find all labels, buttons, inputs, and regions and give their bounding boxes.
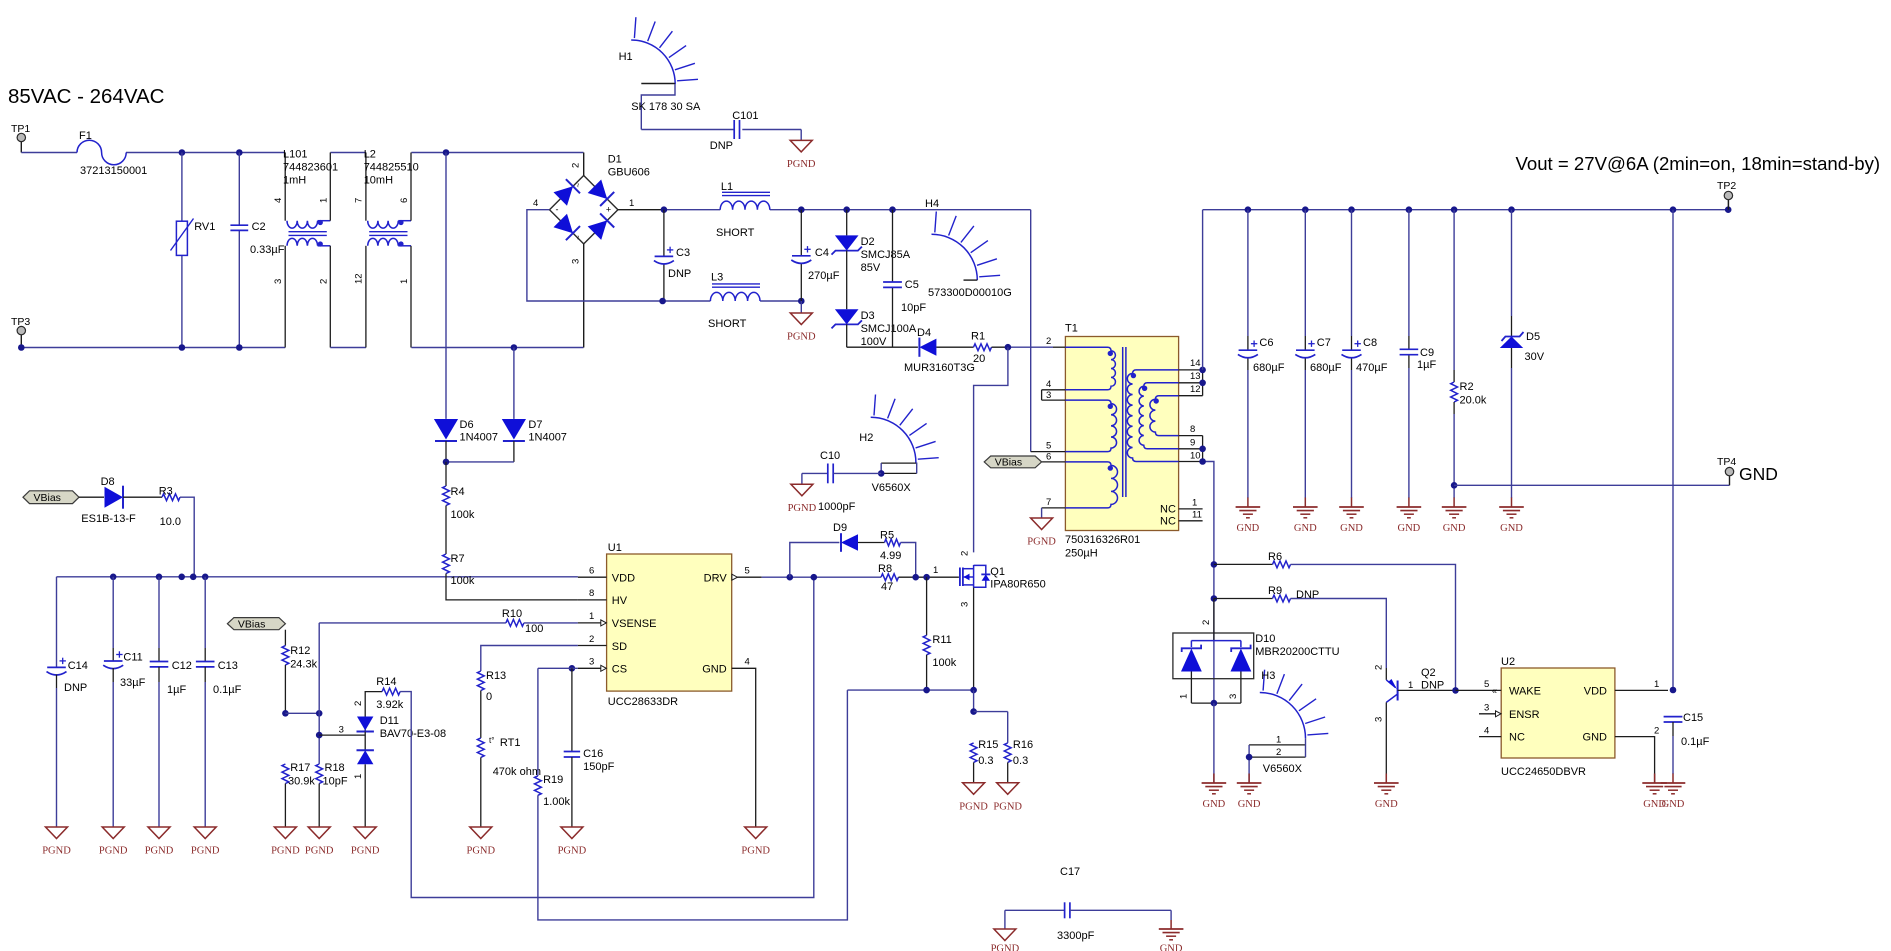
svg-text:8: 8 — [1190, 424, 1195, 435]
svg-text:CS: CS — [612, 664, 627, 676]
svg-text:3300pF: 3300pF — [1057, 930, 1095, 942]
svg-text:+: + — [606, 205, 611, 215]
thermistor RT1 — [477, 736, 541, 827]
test point TP4 — [1454, 456, 1778, 485]
svg-text:2: 2 — [1046, 336, 1051, 347]
svg-text:DRV: DRV — [704, 573, 728, 585]
dual diode D11 — [319, 692, 446, 827]
svg-text:PGND: PGND — [558, 846, 587, 857]
svg-text:750316326R01: 750316326R01 — [1065, 534, 1140, 546]
svg-text:744823601: 744823601 — [283, 162, 338, 174]
svg-text:D5: D5 — [1526, 331, 1540, 343]
svg-text:R16: R16 — [1013, 739, 1033, 751]
svg-text:470k ohm: 470k ohm — [493, 766, 541, 778]
resistor R7 — [443, 553, 578, 600]
diode D4 — [847, 327, 975, 374]
ground GND (D10) — [1202, 774, 1227, 811]
svg-text:D4: D4 — [917, 327, 931, 339]
svg-text:1.00k: 1.00k — [543, 796, 570, 808]
wire output +rail — [1203, 206, 1732, 213]
svg-text:3: 3 — [571, 259, 582, 264]
svg-text:1: 1 — [318, 198, 329, 203]
svg-text:D1: D1 — [608, 154, 622, 166]
svg-text:5: 5 — [1046, 441, 1051, 452]
power ground PGND (C12) — [145, 827, 174, 857]
svg-text:GND: GND — [1203, 799, 1226, 810]
svg-text:D2: D2 — [861, 236, 875, 248]
svg-text:10.0: 10.0 — [160, 516, 181, 528]
svg-text:2: 2 — [1201, 620, 1212, 625]
resistor R11 — [923, 577, 957, 690]
transformer T1 — [1031, 323, 1206, 560]
svg-text:DNP: DNP — [1296, 589, 1319, 601]
svg-text:10pF: 10pF — [901, 302, 926, 314]
svg-text:20.0k: 20.0k — [1460, 395, 1487, 407]
svg-text:30V: 30V — [1525, 351, 1545, 363]
resistor R2 — [1451, 210, 1487, 498]
svg-text:H2: H2 — [859, 432, 873, 444]
svg-text:NC: NC — [1160, 504, 1176, 516]
svg-text:PGND: PGND — [993, 801, 1022, 812]
svg-text:DNP: DNP — [64, 682, 87, 694]
svg-text:PGND: PGND — [351, 846, 380, 857]
svg-text:~: ~ — [574, 235, 583, 240]
svg-text:1: 1 — [1192, 498, 1197, 509]
svg-text:PGND: PGND — [741, 846, 770, 857]
svg-text:1: 1 — [933, 565, 938, 576]
power ground PGND (C11) — [99, 827, 128, 857]
net label 85VAC - 264VAC — [8, 85, 165, 108]
capacitor C10 — [802, 450, 881, 513]
svg-text:R1: R1 — [971, 331, 985, 343]
svg-text:T1: T1 — [1065, 323, 1078, 335]
svg-text:DNP: DNP — [668, 268, 691, 280]
svg-text:7: 7 — [1046, 497, 1051, 508]
svg-text:PGND: PGND — [1027, 537, 1056, 548]
inductor L1 — [716, 181, 770, 239]
svg-text:GND: GND — [1340, 523, 1363, 534]
capacitor C6 — [1238, 210, 1285, 498]
svg-text:BAV70-E3-08: BAV70-E3-08 — [380, 728, 446, 740]
svg-text:GND: GND — [1739, 464, 1778, 484]
svg-text:NC: NC — [1509, 732, 1525, 744]
transistor Q2 — [1374, 665, 1459, 783]
capacitor C15 — [1664, 712, 1710, 774]
capacitor C7 — [1295, 210, 1341, 498]
resistor R4 — [443, 462, 475, 554]
svg-text:PGND: PGND — [788, 503, 817, 514]
svg-text:3: 3 — [339, 725, 344, 736]
ground GND (C8) — [1339, 498, 1364, 535]
ground GND (Q2) — [1374, 774, 1399, 811]
capacitor C16 — [564, 748, 615, 827]
svg-text:573300D00010G: 573300D00010G — [928, 287, 1012, 299]
power ground PGND (R18) — [305, 827, 334, 857]
capacitor C9 — [1400, 210, 1437, 498]
svg-text:RT1: RT1 — [500, 737, 521, 749]
power ground PGND (R17) — [271, 827, 300, 857]
svg-text:MBR20200CTTU: MBR20200CTTU — [1255, 646, 1339, 658]
svg-text:744825510: 744825510 — [364, 162, 419, 174]
ground GND (U2) — [1642, 774, 1667, 811]
svg-text:SK 178 30 SA: SK 178 30 SA — [631, 101, 701, 113]
power ground PGND (R16) — [993, 783, 1022, 813]
resistor R18 — [316, 762, 348, 827]
svg-text:1: 1 — [1408, 680, 1413, 691]
diode D9 — [790, 522, 885, 577]
wire DC- rail — [659, 298, 804, 305]
power port VBias (left) — [23, 491, 104, 504]
power port VBias (divider) — [227, 618, 285, 631]
wire DC+ rail — [661, 206, 1031, 451]
svg-text:GND: GND — [1294, 523, 1317, 534]
svg-text:1000pF: 1000pF — [818, 501, 856, 513]
svg-text:R8: R8 — [878, 563, 892, 575]
heatsink H3 — [1246, 670, 1329, 783]
svg-text:D11: D11 — [380, 715, 399, 727]
svg-text:C16: C16 — [583, 748, 603, 760]
svg-text:C14: C14 — [68, 660, 88, 672]
svg-text:1N4007: 1N4007 — [460, 432, 499, 444]
wire L101-L2 bottom link — [330, 347, 366, 349]
svg-text:10pF: 10pF — [323, 776, 348, 788]
svg-text:C101: C101 — [732, 110, 758, 122]
ground GND (C6) — [1236, 498, 1261, 535]
ground GND (R2) — [1442, 498, 1467, 535]
svg-text:R15: R15 — [978, 739, 998, 751]
svg-text:150pF: 150pF — [583, 761, 614, 773]
power ground PGND (R15) — [959, 783, 988, 813]
svg-text:V6560X: V6560X — [1263, 763, 1303, 775]
svg-text:4: 4 — [1046, 379, 1051, 390]
svg-text:2: 2 — [589, 634, 594, 645]
capacitor C13 — [196, 577, 242, 827]
inductor L3 — [708, 272, 760, 331]
svg-text:C4: C4 — [815, 247, 829, 259]
power ground PGND (D11) — [351, 827, 380, 857]
svg-text:SMCJ100A: SMCJ100A — [861, 323, 917, 335]
svg-text:3: 3 — [1046, 390, 1051, 401]
test point TP1 — [11, 123, 30, 153]
svg-text:4: 4 — [1484, 726, 1489, 737]
svg-text:14: 14 — [1190, 358, 1201, 369]
svg-text:GND: GND — [1237, 523, 1260, 534]
resistor R8 — [878, 563, 959, 593]
wire AC line top — [21, 152, 583, 154]
svg-text:85VAC - 264VAC: 85VAC - 264VAC — [8, 85, 165, 108]
svg-text:RV1: RV1 — [194, 221, 215, 233]
svg-text:3: 3 — [589, 657, 594, 668]
heatsink H2 — [859, 395, 938, 495]
capacitor C14 — [47, 658, 88, 827]
svg-text:UCC28633DR: UCC28633DR — [608, 696, 678, 708]
svg-text:10mH: 10mH — [364, 175, 393, 187]
svg-text:270µF: 270µF — [808, 270, 840, 282]
svg-text:R17: R17 — [290, 762, 310, 774]
ground GND (C7) — [1293, 498, 1318, 535]
svg-text:C3: C3 — [676, 247, 690, 259]
svg-text:PGND: PGND — [191, 846, 220, 857]
svg-text:TP2: TP2 — [1717, 180, 1736, 192]
ground GND (C9) — [1397, 498, 1422, 535]
svg-text:GND: GND — [1500, 523, 1523, 534]
svg-text:F1: F1 — [79, 130, 92, 142]
svg-text:3: 3 — [1484, 703, 1489, 714]
capacitor C2 — [230, 153, 284, 348]
svg-text:4.99: 4.99 — [880, 550, 901, 562]
svg-text:4: 4 — [745, 657, 750, 668]
svg-text:0.3: 0.3 — [978, 755, 993, 767]
svg-text:2: 2 — [571, 163, 582, 168]
wire secondary return column — [1203, 462, 1218, 704]
svg-text:U1: U1 — [608, 542, 622, 554]
svg-text:100k: 100k — [451, 575, 475, 587]
svg-text:13: 13 — [1190, 371, 1201, 382]
svg-text:L1: L1 — [721, 181, 733, 193]
MOSFET Q1 — [933, 551, 1046, 690]
svg-text:VDD: VDD — [1584, 686, 1607, 698]
svg-text:D6: D6 — [460, 419, 474, 431]
power ground PGND (C10) — [788, 473, 817, 513]
svg-text:L101: L101 — [283, 149, 307, 161]
svg-text:DNP: DNP — [1421, 680, 1444, 692]
power ground PGND (T1 pin7) — [1027, 508, 1056, 548]
svg-text:~: ~ — [574, 183, 583, 188]
svg-text:470µF: 470µF — [1356, 362, 1388, 374]
svg-text:R9: R9 — [1268, 585, 1282, 597]
svg-text:GND: GND — [1662, 799, 1685, 810]
svg-text:VBias: VBias — [995, 457, 1022, 469]
svg-text:SHORT: SHORT — [708, 318, 747, 330]
svg-text:H4: H4 — [925, 198, 939, 210]
heatsink H1 — [619, 17, 701, 129]
svg-text:MUR3160T3G: MUR3160T3G — [904, 362, 975, 374]
junction top rail — [179, 149, 450, 156]
svg-text:VSENSE: VSENSE — [612, 618, 657, 630]
svg-text:D9: D9 — [833, 522, 847, 534]
power ground PGND (C4) — [787, 301, 816, 343]
resistor R14 — [376, 577, 814, 898]
capacitor C8 — [1342, 210, 1388, 498]
svg-text:11: 11 — [1192, 510, 1202, 521]
svg-text:«: « — [1492, 686, 1497, 696]
svg-text:0: 0 — [486, 691, 492, 703]
svg-text:PGND: PGND — [42, 846, 71, 857]
resistor R6 — [1214, 551, 1456, 690]
svg-text:1: 1 — [399, 279, 410, 284]
capacitor C101 — [641, 110, 801, 152]
svg-text:R10: R10 — [502, 608, 522, 620]
svg-text:C10: C10 — [820, 450, 840, 462]
svg-text:12: 12 — [1190, 384, 1201, 395]
test point TP3 — [11, 316, 30, 348]
svg-text:VBias: VBias — [238, 619, 265, 631]
svg-text:12: 12 — [354, 273, 365, 284]
svg-text:HV: HV — [612, 595, 628, 607]
svg-text:PGND: PGND — [991, 944, 1020, 951]
svg-text:GND: GND — [1583, 732, 1608, 744]
svg-text:DNP: DNP — [710, 140, 733, 152]
TVS diode D3 — [832, 251, 917, 348]
svg-text:U2: U2 — [1501, 656, 1515, 668]
svg-text:30.9k: 30.9k — [288, 776, 315, 788]
svg-text:PGND: PGND — [305, 846, 334, 857]
svg-text:PGND: PGND — [787, 159, 816, 170]
svg-text:ES1B-13-F: ES1B-13-F — [81, 513, 136, 525]
wire DRV net — [762, 574, 881, 581]
svg-text:VDD: VDD — [612, 573, 635, 585]
svg-text:GND: GND — [1160, 944, 1183, 951]
ground GND (C17) — [1159, 910, 1184, 951]
resistor R1 — [971, 331, 1008, 366]
wire primary node — [974, 344, 1053, 553]
svg-text:1: 1 — [1179, 694, 1190, 699]
diode D7 — [502, 348, 567, 462]
svg-text:6: 6 — [399, 198, 410, 203]
svg-text:H1: H1 — [619, 51, 633, 63]
svg-text:GBU606: GBU606 — [608, 167, 650, 179]
resistor R19 — [535, 690, 848, 920]
svg-text:GND: GND — [702, 664, 727, 676]
svg-text:GND: GND — [1398, 523, 1421, 534]
resistor R13 — [477, 670, 506, 738]
svg-text:Q2: Q2 — [1421, 667, 1436, 679]
svg-text:IPA80R650: IPA80R650 — [990, 579, 1045, 591]
svg-text:C6: C6 — [1259, 337, 1273, 349]
svg-text:0.1µF: 0.1µF — [213, 684, 242, 696]
svg-text:C8: C8 — [1363, 337, 1377, 349]
ground GND (D5) — [1499, 498, 1524, 535]
svg-text:TP3: TP3 — [11, 316, 30, 328]
net label Vout — [1516, 153, 1881, 174]
svg-text:1µF: 1µF — [167, 684, 186, 696]
resistor R5 — [880, 530, 916, 578]
svg-text:Vout = 27V@6A (2min=on, 18min=: Vout = 27V@6A (2min=on, 18min=stand-by) — [1516, 153, 1881, 174]
svg-text:8: 8 — [589, 588, 594, 599]
resistor R9 — [1214, 585, 1386, 668]
svg-text:R19: R19 — [543, 774, 563, 786]
ground GND (H3) — [1237, 774, 1262, 811]
svg-text:GND: GND — [1375, 799, 1398, 810]
power ground PGND (U1) — [741, 827, 770, 857]
svg-text:C7: C7 — [1317, 337, 1331, 349]
fuse F1 — [77, 130, 147, 177]
svg-text:47: 47 — [881, 581, 893, 593]
svg-text:UCC24650DBVR: UCC24650DBVR — [1501, 766, 1586, 778]
svg-text:R5: R5 — [880, 530, 894, 542]
power ground PGND (C13) — [191, 827, 220, 857]
svg-text:GND: GND — [1443, 523, 1466, 534]
svg-text:0.3: 0.3 — [1013, 755, 1028, 767]
svg-text:680µF: 680µF — [1253, 362, 1285, 374]
svg-text:100k: 100k — [932, 657, 956, 669]
svg-text:1: 1 — [1654, 679, 1659, 690]
svg-text:WAKE: WAKE — [1509, 686, 1541, 698]
svg-text:1µF: 1µF — [1417, 359, 1436, 371]
svg-text:GND: GND — [1238, 799, 1261, 810]
svg-text:R6: R6 — [1268, 551, 1282, 563]
power ground PGND (C17) — [991, 910, 1020, 951]
wire CS net — [538, 665, 578, 776]
svg-text:V6560X: V6560X — [872, 482, 912, 494]
bridge rectifier D1 — [527, 153, 664, 348]
power ground PGND (C16) — [558, 827, 587, 857]
svg-text:3: 3 — [1374, 717, 1385, 722]
svg-text:20: 20 — [973, 353, 985, 365]
svg-text:R18: R18 — [325, 762, 345, 774]
wire D6-D7 join — [443, 459, 514, 466]
svg-text:2: 2 — [1374, 665, 1385, 670]
svg-text:R13: R13 — [486, 670, 506, 682]
svg-text:0.33µF: 0.33µF — [250, 244, 285, 256]
wire SD net — [481, 646, 578, 672]
wire VDD rail — [57, 574, 578, 668]
svg-text:2: 2 — [318, 279, 329, 284]
svg-text:680µF: 680µF — [1310, 362, 1342, 374]
svg-text:1mH: 1mH — [283, 175, 306, 187]
ground GND (C15) — [1661, 774, 1686, 811]
svg-text:6: 6 — [1046, 452, 1051, 463]
svg-text:SHORT: SHORT — [716, 227, 755, 239]
svg-text:R4: R4 — [451, 486, 465, 498]
resistor R15 — [970, 739, 998, 783]
svg-text:PGND: PGND — [467, 846, 496, 857]
svg-text:D10: D10 — [1255, 633, 1275, 645]
svg-text:1: 1 — [1276, 735, 1281, 746]
svg-text:100: 100 — [525, 623, 543, 635]
svg-text:NC: NC — [1160, 516, 1176, 528]
svg-text:6: 6 — [589, 566, 594, 577]
common-mode choke L101 — [273, 149, 338, 348]
svg-text:0.1µF: 0.1µF — [1681, 736, 1710, 748]
resistor R10 — [319, 608, 578, 635]
svg-text:PGND: PGND — [787, 332, 816, 343]
resistor R16 — [1004, 739, 1033, 783]
power port VBias (T1) — [984, 456, 1041, 469]
diode D6 — [434, 153, 498, 462]
svg-text:R11: R11 — [932, 634, 951, 646]
wire divider node — [282, 623, 322, 764]
svg-text:100V: 100V — [861, 336, 887, 348]
svg-text:9: 9 — [1190, 438, 1195, 449]
svg-text:1: 1 — [353, 774, 364, 779]
svg-text:C15: C15 — [1683, 712, 1703, 724]
svg-text:33µF: 33µF — [120, 677, 146, 689]
svg-text:3: 3 — [1228, 694, 1239, 699]
svg-text:-: - — [556, 205, 559, 215]
svg-text:2: 2 — [353, 701, 364, 706]
capacitor C12 — [150, 577, 192, 827]
svg-text:7: 7 — [354, 198, 365, 203]
wire source net — [847, 687, 1007, 743]
svg-text:D3: D3 — [861, 310, 875, 322]
wire AC neutral — [18, 344, 285, 351]
svg-text:2: 2 — [1276, 747, 1281, 758]
svg-text:PGND: PGND — [145, 846, 174, 857]
svg-text:SMCJ85A: SMCJ85A — [861, 249, 911, 261]
svg-text:5: 5 — [1484, 679, 1489, 690]
svg-text:85V: 85V — [861, 262, 881, 274]
IC U2 UCC24650DBVR — [1456, 656, 1669, 783]
svg-text:10: 10 — [1190, 451, 1201, 462]
svg-text:R7: R7 — [451, 553, 465, 565]
svg-text:C2: C2 — [252, 221, 266, 233]
svg-text:24.3k: 24.3k — [290, 659, 317, 671]
svg-text:R12: R12 — [290, 645, 310, 657]
svg-text:VBias: VBias — [34, 492, 61, 504]
svg-text:100k: 100k — [451, 509, 475, 521]
svg-text:4: 4 — [273, 198, 284, 203]
